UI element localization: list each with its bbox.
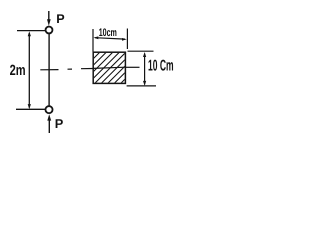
svg-text:10cm: 10cm: [99, 27, 117, 39]
hatching of section: [53, 52, 152, 99]
extension line right of 10cm dimension: [126, 29, 128, 50]
extension line top of 10 Cm dimension: [128, 50, 154, 52]
pin circle bottom: [45, 106, 52, 113]
centerline extension right of section: [126, 66, 140, 68]
dimension line 10 Cm with arrowheads: [143, 52, 146, 86]
centerline tick crossing column: [40, 69, 58, 71]
centerline long dash to section: [81, 68, 93, 70]
dimension line 2m with arrowheads: [28, 31, 31, 109]
svg-text:P: P: [56, 12, 64, 26]
extension line bottom of 10 Cm dimension: [127, 85, 156, 87]
pin circle top: [46, 27, 53, 34]
extension line left of 10cm dimension: [92, 29, 94, 52]
extension line bottom left: [16, 108, 45, 110]
cross-section square outline: [93, 52, 125, 83]
svg-text:P: P: [55, 116, 64, 131]
extension line top left: [17, 30, 45, 32]
column member: [48, 34, 50, 106]
dimension line 10cm with arrowheads: [94, 36, 127, 40]
centerline short dash: [68, 68, 73, 70]
svg-text:10 Cm: 10 Cm: [148, 58, 174, 75]
svg-text:2m: 2m: [10, 63, 26, 79]
load arrow P top: [47, 11, 51, 26]
centerline through section: [93, 67, 125, 68]
load arrow P bottom: [47, 114, 51, 133]
